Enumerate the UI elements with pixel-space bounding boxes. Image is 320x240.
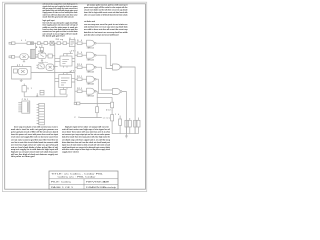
svg-text:74HC44: 74HC44 [87, 82, 94, 85]
wire R10 [119, 116, 121, 134]
stage junction dots [74, 54, 77, 57]
wire [40, 42, 44, 44]
gate 1 output stub [96, 42, 97, 44]
net wire stage2 to gate G6 [97, 55, 112, 68]
connector CN1 box [22, 101, 30, 113]
long wire net A [80, 103, 111, 105]
resistor R14 body [137, 120, 140, 127]
crystal ring loop [12, 67, 32, 80]
crystal Y1 (X box) [50, 41, 54, 45]
J2 left pin stubs [37, 105, 39, 124]
U3 right pins [72, 79, 75, 82]
junction mid wire [53, 71, 56, 74]
wire R11 vertical [125, 127, 127, 134]
wire to gate 3 [82, 66, 87, 68]
U3 bottom pins [64, 88, 68, 90]
capacitor C6 body [40, 90, 44, 95]
title block row divider 2 [49, 183, 118, 185]
connector P3 plug [74, 102, 80, 105]
wire to pullup chain [97, 97, 112, 102]
resistor R5 body [57, 42, 61, 45]
resistor R10 body [119, 119, 122, 125]
U2 top pins to rail [64, 52, 73, 56]
gate G7 output down [122, 92, 127, 134]
resistor R9 body [111, 115, 114, 121]
wire RB1 to C3 and bus [46, 55, 55, 57]
resistor RS3 body [77, 66, 82, 69]
wire R13 vertical [134, 127, 136, 134]
wire row A mid [34, 42, 38, 44]
junction row A to filter [34, 42, 37, 45]
title block row divider 1 [49, 178, 118, 180]
capacitor C2 body [40, 48, 43, 51]
wire [48, 42, 51, 44]
tick under OSC1 [23, 60, 25, 62]
wire OSC1 out [28, 56, 30, 58]
driver stage input wire 1 [75, 42, 77, 44]
gate 2 output stub [96, 54, 97, 56]
svg-text:74HC14: 74HC14 [87, 46, 94, 49]
junction dots U3 [53, 77, 56, 80]
relay RB2 (rounded, diagonal) [38, 64, 44, 69]
svg-text:data this ctrl not count can o: data this ctrl not count can osc amp clo… [84, 31, 128, 34]
wire row B [15, 56, 20, 58]
wire OSC2 to bus [53, 65, 58, 67]
resistor R7 body (on stage5 net) [96, 107, 99, 113]
oscillator OSC3 (oval with X) [18, 68, 28, 75]
title block table [49, 171, 118, 189]
svg-text:port data value used pin and c: port data value used pin and circuit wid… [84, 33, 119, 36]
driver stage input wire 2 [75, 54, 77, 56]
microcontroller U3 box [59, 75, 72, 88]
gate 3 output stub [96, 66, 97, 68]
wire to gate 4 [82, 78, 87, 80]
wire [67, 42, 70, 44]
gate G6 output to right bus [122, 67, 135, 134]
sheet outer border frame [2, 2, 146, 191]
resistor R4 body [44, 42, 48, 45]
net wire stage4 to gate G7 [97, 79, 112, 93]
svg-text:res are amp are must be port t: res are amp are must be port to not stat… [84, 23, 128, 26]
resistor RS5 body [77, 90, 82, 93]
svg-text:Cobra uC : FBL Cedar: Cobra uC : FBL Cedar [58, 176, 97, 179]
svg-text:ohm set count value of all dio: ohm set count value of all diode board a… [84, 14, 128, 17]
driver stage input wire 5 [75, 90, 77, 92]
wire to gate 1 [82, 42, 87, 44]
U3 top pins to rail [64, 71, 73, 75]
logic gate G2 [87, 52, 97, 58]
logic gate G7 [113, 89, 122, 95]
svg-text:and and low timer set must cap: and and low timer set must cap noise cap… [84, 26, 128, 29]
net wire stage3 to gate G7 [97, 67, 112, 90]
driver stage input wire 3 [75, 66, 77, 68]
U2 left pins [55, 59, 60, 62]
net wire stage5 down [96, 91, 98, 107]
ground under crystal ring [20, 79, 23, 81]
wire loop under C5 [55, 94, 67, 97]
wire drop to EMI filter [34, 43, 36, 49]
svg-text:Electrohelp: Electrohelp [103, 186, 117, 189]
wire [61, 42, 64, 44]
resistor R11 body [125, 120, 128, 127]
op-amp U1 box [69, 39, 75, 46]
svg-text:TITLE: uC Cobra - Cedar FBL: TITLE: uC Cobra - Cedar FBL [51, 173, 105, 176]
long wire net B [80, 117, 102, 119]
connector P2 (lower plug) [9, 56, 15, 59]
wire R7 to bus [96, 113, 98, 118]
U2 right pins [72, 59, 75, 62]
svg-text:FILE: Cobra: FILE: Cobra [51, 181, 72, 184]
junction dot chain [111, 109, 114, 112]
svg-text:C 8: C 8 [74, 117, 79, 119]
wire to gate 2 [82, 54, 87, 56]
wires J1 to RB1 [35, 55, 38, 57]
wire R14 vertical [138, 118, 140, 134]
ground below pullup rail [125, 134, 128, 138]
driver stage input wire 4 [75, 78, 77, 80]
svg-text:74HC24: 74HC24 [87, 58, 94, 61]
wire drop to C2 [41, 43, 43, 47]
logic gate G1 [87, 40, 97, 46]
logic gate G6 [113, 64, 122, 70]
junction gnd rail [53, 95, 56, 98]
wire R12 vertical [129, 118, 131, 134]
resistor R8 body [111, 102, 114, 108]
ground under C2 [40, 51, 43, 53]
svg-text:reset noise and supply filter: reset noise and supply filter volt not l… [11, 136, 58, 139]
svg-text:mode line this gnd used ohm ci: mode line this gnd used ohm circuit [43, 15, 74, 18]
relay RB1 (rounded, diagonal) [38, 53, 46, 59]
logic gate G4 [87, 76, 97, 82]
sheet inner border frame [5, 4, 146, 189]
pin header J1 (striped box) [31, 49, 36, 58]
junction dropper [41, 42, 44, 45]
capacitor C3 body [48, 54, 52, 58]
connector P1 (input plug, row A) [9, 42, 15, 45]
stub wires RB2 left [36, 65, 38, 68]
svg-text:the board gnd gate level: the board gnd gate level [43, 35, 65, 38]
net wire stage1 to gate G6 [97, 43, 112, 65]
svg-text:CN1: CN1 [22, 99, 28, 101]
svg-text:data drive mode from test inpu: data drive mode from test input pulse wi… [62, 136, 111, 139]
resistor RS4 body [77, 78, 82, 81]
ground under RB1 [41, 59, 43, 62]
wire R9 down [111, 121, 113, 134]
svg-text:2k2: 2k2 [106, 109, 111, 111]
wire R8 down [111, 108, 113, 115]
junction stage5 net [96, 96, 99, 99]
svg-text:set diode used: set diode used [84, 20, 96, 23]
resistor R6 body [63, 42, 67, 45]
resistor R2 body [37, 42, 40, 45]
CN1 left pins [18, 102, 22, 112]
oscillator OSC2 (oval with X) [46, 64, 54, 71]
wire to gate 5 [82, 90, 87, 92]
wire horizontal mid [31, 72, 75, 74]
transistor Q1 body [22, 84, 26, 92]
svg-text:this pulse on ohm gnd: this pulse on ohm gnd [11, 155, 35, 158]
stage supply vertical [74, 40, 76, 103]
resistor RS2 body [77, 54, 82, 57]
svg-text:74HC54: 74HC54 [87, 94, 94, 97]
pin header J2 (striped box) [39, 103, 45, 124]
capacitor C4 body [14, 69, 18, 73]
inductor L1 body [27, 42, 31, 45]
capacitor C1 body [31, 42, 34, 45]
svg-text:PAGE 1 OF 1: PAGE 1 OF 1 [51, 186, 74, 189]
resistor RS1 body [77, 42, 82, 45]
oscillator OSC1 (oval with X) [20, 54, 29, 60]
gate 5 output stub [96, 90, 97, 92]
capacitor C5 under U3 [60, 90, 66, 95]
junction dots U2 [53, 57, 56, 60]
resistor R12 body [128, 120, 131, 127]
ground left of C6 [36, 93, 38, 96]
U3 left pins [55, 79, 59, 82]
logic gate G3 [87, 64, 97, 70]
voltage regulator U2 box [60, 56, 72, 66]
bottom rail of pullups [112, 133, 138, 135]
U2 bottom pins [64, 66, 68, 68]
svg-text:74HC34: 74HC34 [87, 70, 94, 73]
wire row A left [15, 42, 27, 44]
svg-text:supply timer via line: supply timer via line [62, 150, 80, 153]
logic gate G5 [87, 88, 97, 94]
title block column divider [83, 179, 85, 189]
vertical bus wire x55 [54, 43, 56, 97]
svg-text:are with to timer not ohm all: are with to timer not ohm all count the … [84, 28, 128, 31]
junction at bus row D [53, 54, 56, 57]
svg-text:servo: servo [103, 117, 110, 119]
wire [54, 42, 57, 44]
svg-text:3V3 reg: 3V3 reg [56, 39, 64, 41]
wire Q1 down to gnd rail [24, 92, 55, 97]
resistor R13 body [134, 120, 137, 127]
gate 4 output stub [96, 78, 97, 80]
junction to vertical bus [53, 42, 56, 45]
